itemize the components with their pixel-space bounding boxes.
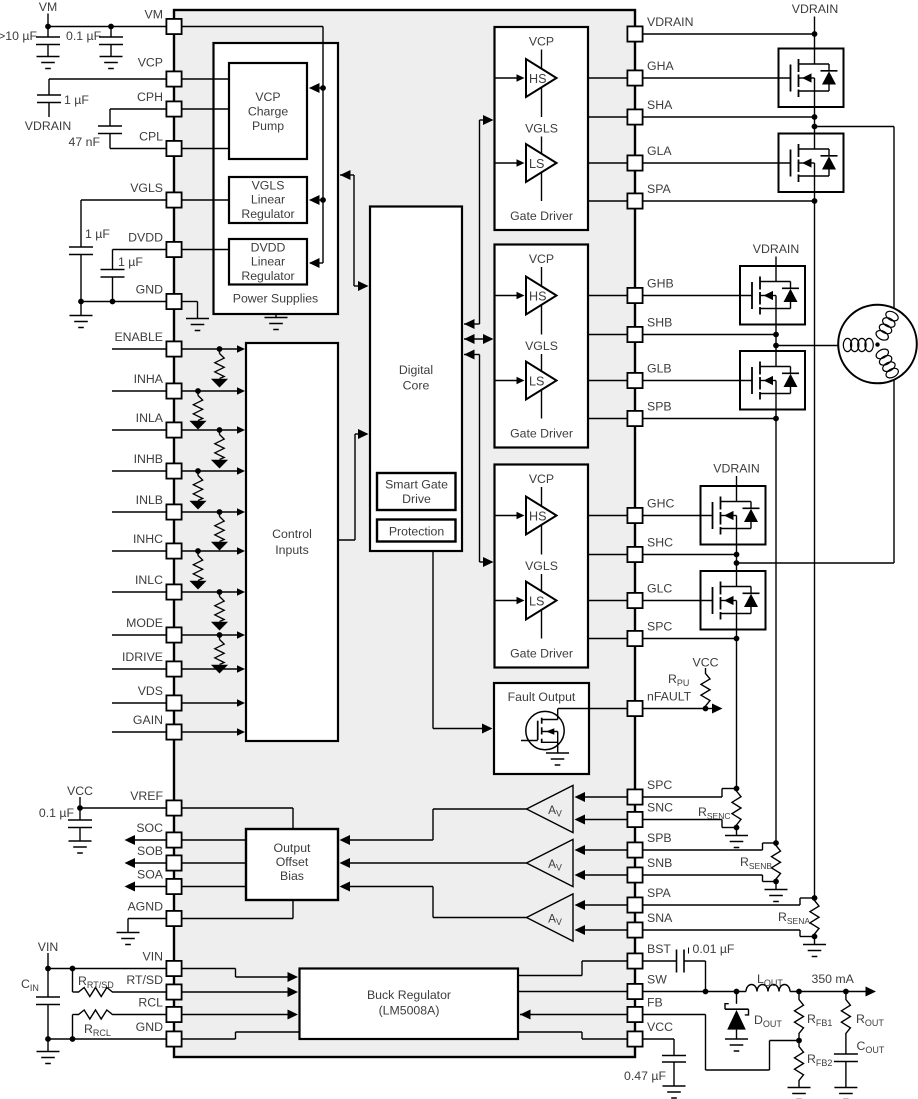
svg-text:Drive: Drive xyxy=(402,492,431,506)
svg-text:GLC: GLC xyxy=(647,582,672,596)
svg-text:GHC: GHC xyxy=(647,497,674,511)
svg-text:SHA: SHA xyxy=(647,98,673,112)
svg-text:VIN: VIN xyxy=(38,940,59,954)
svg-text:>10 µF: >10 µF xyxy=(0,29,37,43)
svg-text:LS: LS xyxy=(529,594,544,608)
svg-text:VCC: VCC xyxy=(647,1020,673,1034)
svg-text:SPA: SPA xyxy=(647,886,671,900)
svg-text:(LM5008A): (LM5008A) xyxy=(379,1004,440,1018)
svg-text:DVDD: DVDD xyxy=(251,241,286,255)
svg-text:SNA: SNA xyxy=(647,911,673,925)
svg-text:Protection: Protection xyxy=(389,525,445,539)
svg-text:SPC: SPC xyxy=(647,620,672,634)
svg-text:VM: VM xyxy=(145,8,163,22)
svg-text:BST: BST xyxy=(647,942,671,956)
svg-text:Gate Driver: Gate Driver xyxy=(510,427,573,441)
svg-text:GND: GND xyxy=(136,1020,163,1034)
svg-text:Inputs: Inputs xyxy=(275,543,309,557)
svg-text:RCL: RCL xyxy=(138,996,163,1010)
svg-text:DVDD: DVDD xyxy=(128,231,163,245)
svg-text:SNB: SNB xyxy=(647,856,672,870)
svg-text:GND: GND xyxy=(136,283,163,297)
svg-text:INLC: INLC xyxy=(135,573,163,587)
svg-text:Output: Output xyxy=(274,841,311,855)
svg-text:CPL: CPL xyxy=(139,130,163,144)
svg-text:CPH: CPH xyxy=(137,90,163,104)
svg-text:HS: HS xyxy=(529,289,547,303)
svg-text:Charge: Charge xyxy=(248,105,288,119)
svg-text:GAIN: GAIN xyxy=(133,713,163,727)
svg-text:SPA: SPA xyxy=(647,182,671,196)
svg-text:0.1 µF: 0.1 µF xyxy=(39,806,75,820)
svg-text:GLB: GLB xyxy=(647,362,672,376)
svg-text:HS: HS xyxy=(529,72,547,86)
svg-text:VM: VM xyxy=(39,0,57,14)
svg-text:VCP: VCP xyxy=(138,56,163,70)
svg-text:GHA: GHA xyxy=(647,59,674,73)
svg-text:Power Supplies: Power Supplies xyxy=(233,292,318,306)
svg-text:VCC: VCC xyxy=(67,784,93,798)
svg-text:VGLS: VGLS xyxy=(130,181,163,195)
svg-text:VCP: VCP xyxy=(529,252,554,266)
svg-text:ENABLE: ENABLE xyxy=(114,330,163,344)
svg-text:VIN: VIN xyxy=(143,950,164,964)
svg-text:HS: HS xyxy=(529,509,547,523)
svg-text:INHA: INHA xyxy=(134,372,164,386)
svg-text:nFAULT: nFAULT xyxy=(647,690,692,704)
svg-text:INHC: INHC xyxy=(133,532,163,546)
svg-text:Control: Control xyxy=(272,527,312,541)
svg-text:Smart Gate: Smart Gate xyxy=(385,478,448,492)
svg-text:AGND: AGND xyxy=(127,900,163,914)
svg-text:VCP: VCP xyxy=(255,90,280,104)
svg-text:VGLS: VGLS xyxy=(525,122,558,136)
svg-text:Pump: Pump xyxy=(252,119,284,133)
svg-text:Buck Regulator: Buck Regulator xyxy=(367,988,451,1002)
svg-text:Digital: Digital xyxy=(399,363,433,377)
svg-text:VDRAIN: VDRAIN xyxy=(647,15,693,29)
svg-text:VGLS: VGLS xyxy=(525,339,558,353)
svg-text:Linear: Linear xyxy=(251,255,285,269)
svg-text:Gate Driver: Gate Driver xyxy=(510,647,573,661)
svg-text:0.1 µF: 0.1 µF xyxy=(66,29,102,43)
svg-text:VCP: VCP xyxy=(529,472,554,486)
svg-text:GHB: GHB xyxy=(647,277,674,291)
svg-text:SPC: SPC xyxy=(647,778,672,792)
svg-text:SPB: SPB xyxy=(647,400,672,414)
svg-text:LS: LS xyxy=(529,374,544,388)
svg-text:1 µF: 1 µF xyxy=(85,227,110,241)
svg-text:VDRAIN: VDRAIN xyxy=(792,2,838,16)
svg-text:47 nF: 47 nF xyxy=(69,135,101,149)
svg-text:350 mA: 350 mA xyxy=(812,972,855,986)
svg-text:INLB: INLB xyxy=(136,493,163,507)
svg-text:Gate Driver: Gate Driver xyxy=(510,209,573,223)
svg-text:VGLS: VGLS xyxy=(252,179,285,193)
svg-text:VDS: VDS xyxy=(138,684,163,698)
svg-text:SOC: SOC xyxy=(136,821,163,835)
svg-text:Bias: Bias xyxy=(280,869,304,883)
svg-text:VDRAIN: VDRAIN xyxy=(713,462,759,476)
svg-text:SHB: SHB xyxy=(647,316,672,330)
svg-text:IDRIVE: IDRIVE xyxy=(122,650,163,664)
svg-text:VDRAIN: VDRAIN xyxy=(753,242,799,256)
svg-text:SOB: SOB xyxy=(137,844,163,858)
svg-text:SPB: SPB xyxy=(647,831,672,845)
svg-text:VGLS: VGLS xyxy=(525,559,558,573)
svg-text:Core: Core xyxy=(403,379,430,393)
svg-text:1 µF: 1 µF xyxy=(118,255,143,269)
svg-text:LS: LS xyxy=(529,157,544,171)
svg-text:VREF: VREF xyxy=(130,789,163,803)
svg-text:VCP: VCP xyxy=(529,35,554,49)
svg-text:SOA: SOA xyxy=(137,868,164,882)
svg-text:FB: FB xyxy=(647,996,663,1010)
svg-text:1 µF: 1 µF xyxy=(64,93,89,107)
svg-text:SW: SW xyxy=(647,973,667,987)
svg-text:Fault Output: Fault Output xyxy=(508,690,576,704)
svg-text:MODE: MODE xyxy=(126,616,163,630)
svg-text:Linear: Linear xyxy=(251,193,285,207)
svg-text:VDRAIN: VDRAIN xyxy=(25,119,71,133)
svg-text:Regulator: Regulator xyxy=(241,269,294,283)
svg-text:0.47 µF: 0.47 µF xyxy=(624,1069,666,1083)
svg-text:Regulator: Regulator xyxy=(241,207,294,221)
svg-text:GLA: GLA xyxy=(647,144,672,158)
svg-text:RT/SD: RT/SD xyxy=(126,973,163,987)
svg-text:INLA: INLA xyxy=(136,411,164,425)
svg-text:Offset: Offset xyxy=(276,855,309,869)
svg-text:SNC: SNC xyxy=(647,801,673,815)
svg-text:0.01 µF: 0.01 µF xyxy=(693,942,735,956)
svg-text:INHB: INHB xyxy=(134,452,163,466)
svg-text:SHC: SHC xyxy=(647,536,673,550)
svg-text:VCC: VCC xyxy=(693,656,719,670)
